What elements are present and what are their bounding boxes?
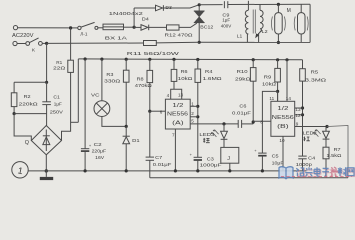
svg-text:D1: D1 <box>132 138 140 144</box>
capacitor C3 <box>194 156 202 158</box>
wire up to D3 line <box>133 8 135 27</box>
wire pin 8 <box>253 120 271 122</box>
capacitor C2 <box>84 57 87 60</box>
svg-text:1: 1 <box>191 101 194 106</box>
wire <box>18 27 69 29</box>
svg-text:LED3: LED3 <box>199 132 214 138</box>
svg-text:(B): (B) <box>277 124 289 130</box>
node R2 branch <box>45 81 48 84</box>
svg-text:LED2: LED2 <box>303 131 317 137</box>
svg-text:13: 13 <box>295 107 301 112</box>
svg-text:R10: R10 <box>237 69 248 75</box>
ground <box>45 171 47 177</box>
svg-text:C1: C1 <box>53 95 60 101</box>
terminal AC line 1 <box>13 26 17 30</box>
timer IC 1/2 NE556 (B) <box>271 101 295 136</box>
wire gate <box>179 23 197 27</box>
svg-text:13: 13 <box>178 92 184 97</box>
svg-text:R9: R9 <box>264 74 272 80</box>
svg-text:1000p: 1000p <box>296 162 312 168</box>
svg-text:C2: C2 <box>94 142 102 148</box>
svg-text:R2: R2 <box>24 94 31 100</box>
capacitor C7 <box>149 111 151 157</box>
wire down to bridge left <box>14 114 31 141</box>
svg-text:250V: 250V <box>50 109 64 115</box>
svg-text:R11 56Ω/10W: R11 56Ω/10W <box>127 51 180 57</box>
svg-text:10μF: 10μF <box>272 160 284 166</box>
diode D1 <box>125 126 127 136</box>
wire pin 13 <box>295 107 303 109</box>
svg-text:VC: VC <box>91 92 100 98</box>
svg-text:10kΩ: 10kΩ <box>178 76 193 82</box>
node trigger B <box>252 120 255 123</box>
relay J <box>223 139 225 147</box>
node K junction <box>45 42 48 45</box>
wire <box>124 26 133 28</box>
wire rail start <box>71 121 79 123</box>
resistor R7 <box>325 139 327 147</box>
wire pin 6 <box>150 110 166 112</box>
wire <box>46 105 48 126</box>
svg-text:R4: R4 <box>205 69 213 75</box>
svg-text:29kΩ: 29kΩ <box>235 76 251 82</box>
svg-text:C9: C9 <box>222 12 229 18</box>
node ground junction <box>45 169 48 172</box>
wire R1 bottom to bridge right <box>62 72 71 140</box>
svg-text:12: 12 <box>295 113 301 118</box>
svg-text:R6: R6 <box>181 69 188 75</box>
terminal AC line 2 <box>13 41 17 45</box>
lamp tube 2 <box>300 4 302 12</box>
resistor R6 <box>172 58 175 61</box>
resistor R4 <box>196 58 199 61</box>
svg-text:3.3MΩ: 3.3MΩ <box>305 78 327 84</box>
svg-text:R1: R1 <box>56 60 62 66</box>
node R9 bottom <box>276 90 279 93</box>
svg-text:1000μF: 1000μF <box>200 163 222 169</box>
wire K vertical <box>46 43 48 82</box>
node AC top junction <box>69 26 72 29</box>
svg-text:7: 7 <box>172 132 175 137</box>
svg-text:1.6MΩ: 1.6MΩ <box>203 76 223 82</box>
wire pin 11 <box>277 91 279 101</box>
svg-text:L2: L2 <box>262 29 269 34</box>
svg-text:R8: R8 <box>137 77 144 83</box>
inductor L1 <box>247 1 249 10</box>
wire <box>228 3 310 5</box>
node pin1 <box>196 105 199 108</box>
svg-text:330Ω: 330Ω <box>104 78 121 84</box>
resistor R11 <box>144 41 157 46</box>
wire pins 4 13 <box>171 89 182 99</box>
node pin6 <box>148 110 151 113</box>
svg-text:220kΩ: 220kΩ <box>19 101 39 107</box>
svg-text:11: 11 <box>269 96 274 101</box>
node R3 D1 <box>125 125 128 128</box>
svg-text:5: 5 <box>191 119 194 124</box>
svg-text:1/2: 1/2 <box>277 106 288 112</box>
svg-text:1/2: 1/2 <box>172 103 183 109</box>
node triac bottom <box>198 41 201 44</box>
watermark dashed line <box>281 176 352 178</box>
bridge rectifier Q <box>31 126 61 155</box>
svg-text:R7: R7 <box>334 147 341 153</box>
wire right loop <box>309 4 311 42</box>
wire <box>134 7 155 9</box>
fuse BX 1A <box>103 24 124 30</box>
svg-text:4: 4 <box>167 93 170 98</box>
svg-text:14: 14 <box>286 96 292 101</box>
node lamp bottom <box>277 41 280 44</box>
node pin2 <box>196 115 199 118</box>
wire <box>156 41 199 44</box>
capacitor C5 <box>258 152 266 154</box>
svg-text:220μF: 220μF <box>92 149 107 155</box>
arrow tap <box>257 30 262 35</box>
switch JI-1 <box>78 26 81 29</box>
inductor L2 <box>259 4 261 10</box>
wire pin 5 output <box>190 123 238 125</box>
wire VC bottom <box>102 117 126 127</box>
wire <box>149 26 167 28</box>
capacitor C9 <box>223 1 225 8</box>
wire pin 9 output <box>295 126 327 128</box>
svg-text:C3: C3 <box>207 156 214 162</box>
svg-text:2: 2 <box>191 111 194 116</box>
wire <box>198 23 200 43</box>
wire top rail right <box>199 4 222 6</box>
svg-text:C7: C7 <box>155 155 162 161</box>
LED3 <box>223 124 225 131</box>
paper background <box>0 0 355 184</box>
wire bridge bottom <box>45 155 47 171</box>
wire <box>13 107 15 114</box>
svg-text:R3: R3 <box>106 72 113 78</box>
svg-text:6: 6 <box>160 110 163 115</box>
diode D4 <box>134 26 141 28</box>
switch K <box>17 43 26 45</box>
svg-text:C4: C4 <box>308 156 315 162</box>
capacitor C1 <box>42 101 51 103</box>
wire pin 1 <box>190 105 198 107</box>
svg-text:1μF: 1μF <box>54 101 62 107</box>
node LED3 tap <box>222 122 225 125</box>
svg-text:BX 1A: BX 1A <box>105 35 128 41</box>
diode D3 <box>156 5 163 11</box>
svg-text:L1: L1 <box>237 33 243 38</box>
wire <box>46 82 48 101</box>
lamp tube 1 <box>277 4 279 12</box>
svg-text:R5: R5 <box>311 70 319 76</box>
LED2 <box>325 127 327 132</box>
wire <box>163 5 199 8</box>
node triac top <box>198 3 201 6</box>
wire AC line 2 bottom of lamps <box>199 41 310 43</box>
watermark text <box>297 168 355 178</box>
lamp VC <box>100 58 103 61</box>
svg-text:1.5kΩ: 1.5kΩ <box>326 153 341 159</box>
wire <box>72 27 78 29</box>
svg-text:0.01μF: 0.01μF <box>153 162 172 168</box>
wire pin 12 <box>295 114 303 116</box>
resistor R5 <box>302 60 304 69</box>
capacitor C4 <box>298 155 306 157</box>
wire C7 down to lower line <box>149 160 151 178</box>
wire ground rail <box>28 170 306 172</box>
watermark book icon <box>279 167 293 179</box>
resistor R8 <box>148 58 151 61</box>
wire pin 7 <box>174 129 176 171</box>
node 1 marker <box>12 162 28 178</box>
svg-text:Q: Q <box>25 140 29 146</box>
node pin12 <box>301 113 304 116</box>
wire pin 10 <box>282 136 284 171</box>
wire +V rail <box>78 58 302 61</box>
svg-text:D4: D4 <box>142 17 149 23</box>
node R2 bottom <box>13 112 16 115</box>
svg-text:9: 9 <box>296 122 299 127</box>
svg-text:AC220V: AC220V <box>12 33 34 39</box>
svg-text:0.01μF: 0.01μF <box>232 110 251 116</box>
wire lower line <box>150 177 348 179</box>
op-amp U1 timer IC 1/2 NE556 (A) <box>165 99 190 129</box>
capacitor C6 <box>237 120 239 128</box>
resistor R12 <box>167 25 180 30</box>
svg-text:22Ω: 22Ω <box>53 65 66 71</box>
wire pin 2 <box>190 116 198 118</box>
wire <box>42 42 46 44</box>
svg-text:16V: 16V <box>95 155 105 161</box>
svg-text:J: J <box>227 156 230 162</box>
wire <box>242 123 254 125</box>
svg-text:10kΩ: 10kΩ <box>262 81 277 87</box>
triac BC12 <box>198 5 200 11</box>
svg-text:8: 8 <box>260 120 263 125</box>
svg-text:(A): (A) <box>172 121 184 127</box>
transformer core <box>252 10 254 34</box>
svg-text:R12 470Ω: R12 470Ω <box>165 33 194 39</box>
resistor R1 <box>70 28 72 60</box>
svg-text:10: 10 <box>279 138 285 143</box>
svg-text:1μF: 1μF <box>222 18 230 24</box>
svg-text:C5: C5 <box>272 153 279 159</box>
svg-text:C6: C6 <box>239 104 246 110</box>
svg-text:400V: 400V <box>221 24 232 30</box>
svg-text:Л-1: Л-1 <box>80 31 88 36</box>
svg-text:NE556: NE556 <box>167 112 188 118</box>
wire K line to R11 <box>47 42 144 44</box>
resistor R3 <box>125 58 128 61</box>
node pin13 <box>301 106 304 109</box>
svg-text:BC12: BC12 <box>200 25 213 31</box>
svg-text:NE556: NE556 <box>272 115 294 121</box>
wire R2 top branch <box>14 81 47 83</box>
wire <box>98 27 103 29</box>
svg-text:1N4004x2: 1N4004x2 <box>109 11 144 17</box>
svg-text:M: M <box>287 8 291 14</box>
resistor R2 <box>11 93 17 107</box>
resistor R10 <box>252 58 255 61</box>
resistor R9 <box>276 58 279 61</box>
node D-branch junction <box>133 26 136 29</box>
wire R2 bottom to C1 line <box>14 113 47 115</box>
wire to C5 <box>262 91 277 153</box>
wire pin 14 <box>285 58 288 61</box>
node lamp top <box>277 3 280 6</box>
